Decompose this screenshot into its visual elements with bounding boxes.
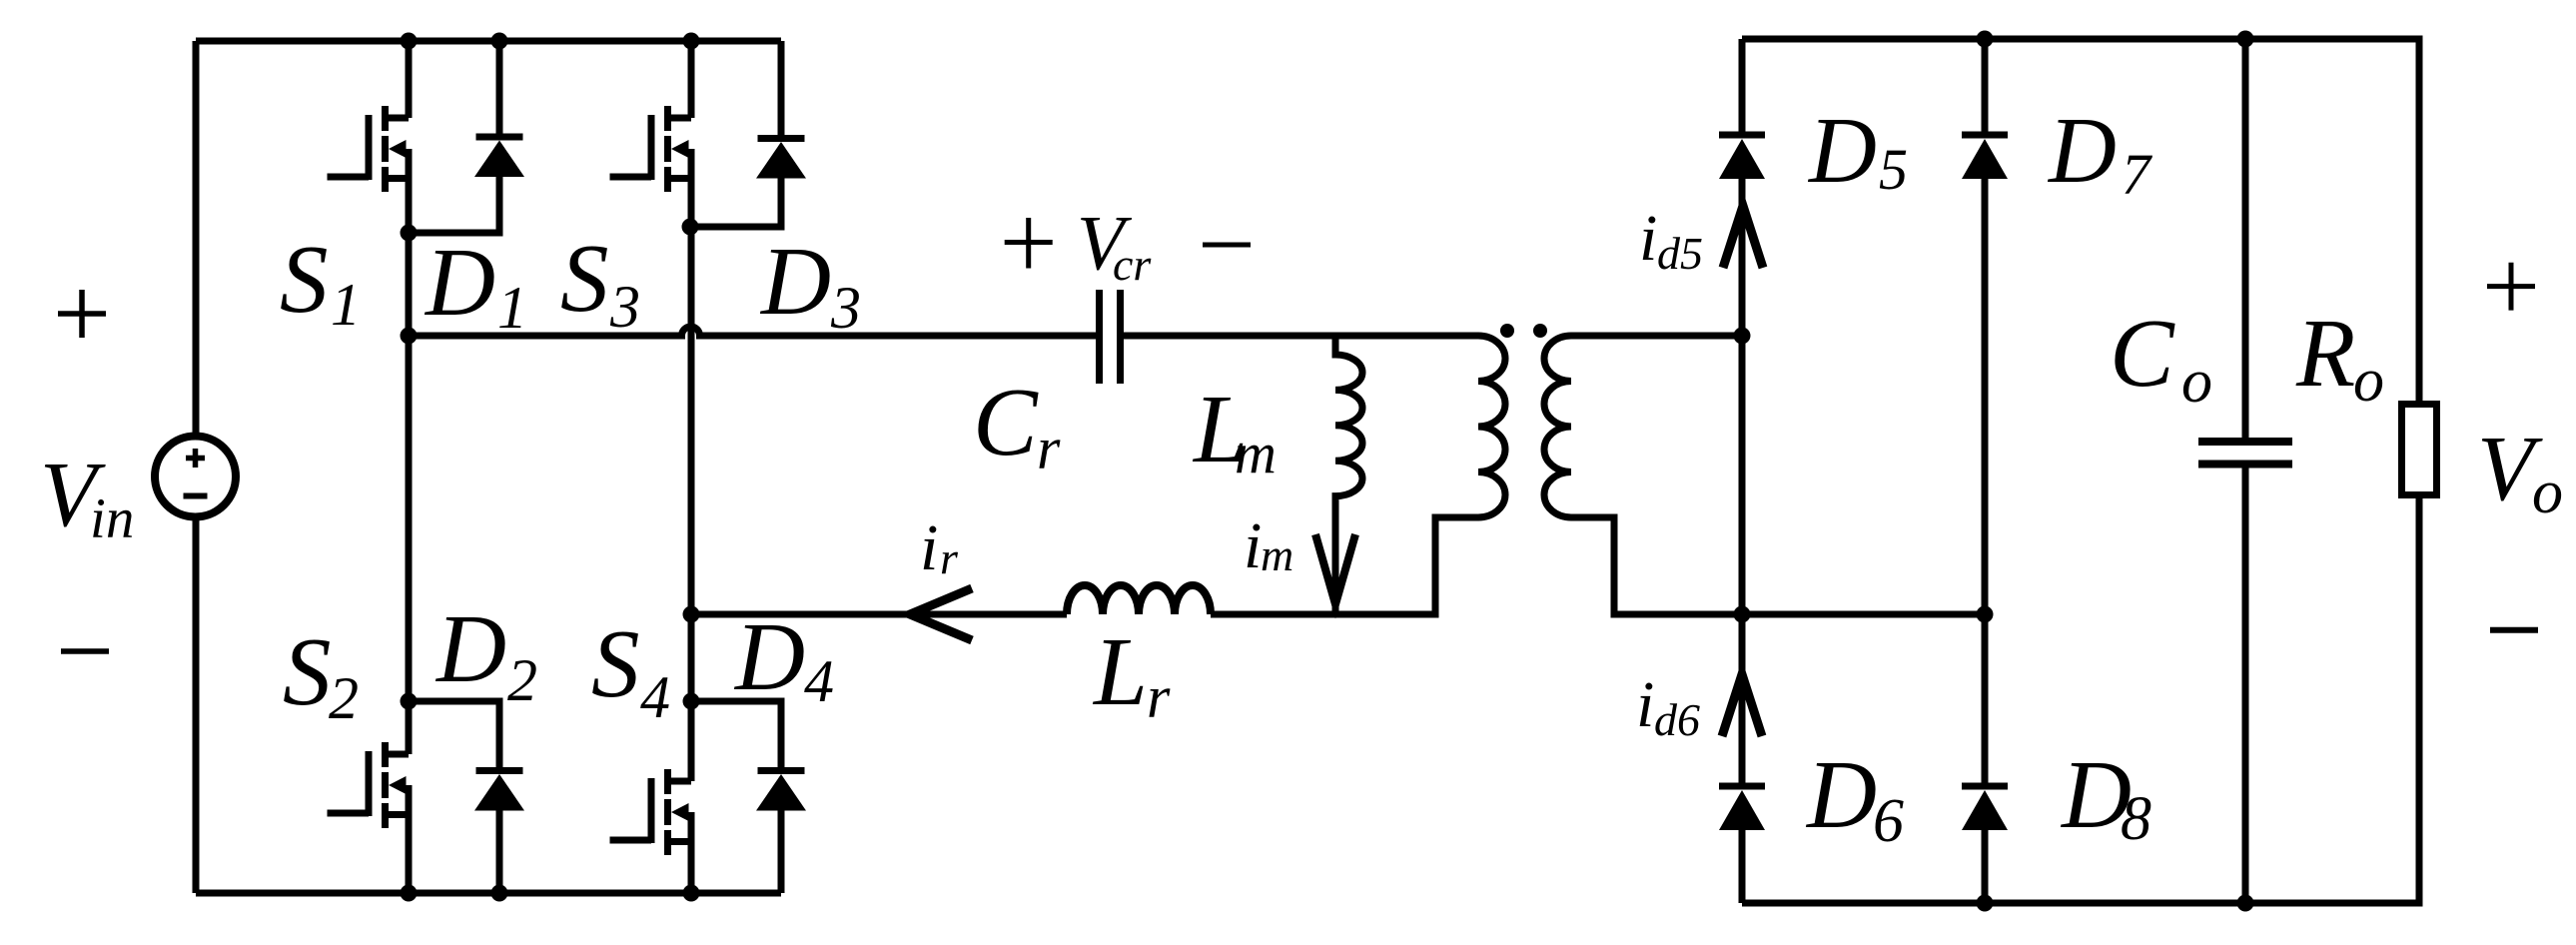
node: bottom rail / S4 source: [683, 885, 700, 902]
wire: D8 anode to bottom rail: [1982, 829, 1989, 903]
wire: D3 anode to S3 source node: [690, 177, 781, 227]
svg-text:D: D: [1807, 99, 1877, 203]
wire: return from S4 node through Lr: [691, 611, 1067, 618]
svg-text:2: 2: [329, 665, 359, 731]
svg-text:in: in: [90, 487, 134, 550]
wire: S4 drain node to D4 cathode: [691, 701, 781, 768]
wire: S1 drain lead: [406, 41, 413, 118]
wire: D5 cathode lead: [1739, 39, 1746, 132]
svg-text:S: S: [591, 610, 640, 717]
node: S2 drain / D2 cathode: [401, 693, 418, 710]
wire: Cr to transformer primary top: [1124, 333, 1478, 340]
diode D6: [1719, 786, 1765, 830]
wire: secondary top to rectifier node: [1571, 333, 1742, 340]
svg-text:i: i: [1636, 668, 1654, 741]
wire: secondary bottom to rectifier node: [1571, 517, 1985, 614]
arrow id6 current: [1722, 674, 1762, 736]
wire: right leg S3 source to S4 drain: [688, 178, 695, 781]
svg-text:r: r: [940, 532, 959, 583]
svg-text:3: 3: [609, 274, 640, 340]
svg-text:o: o: [2181, 348, 2212, 416]
wire: S3 drain lead: [688, 41, 695, 118]
wire: D6 anode to bottom rail: [1739, 829, 1746, 903]
capacitor Cr right plate: [1117, 290, 1124, 384]
wire: D1 anode to S1 source node: [409, 176, 499, 233]
node: S3 source / D3 anode: [682, 219, 699, 236]
svg-text:r: r: [1037, 416, 1061, 481]
svg-text:D: D: [424, 229, 495, 336]
wire: D1 cathode lead: [496, 41, 503, 135]
svg-text:m: m: [1261, 529, 1293, 580]
svg-text:i: i: [920, 511, 938, 584]
node: top rail / D1 cathode: [491, 33, 508, 50]
node: bottom rail / S2 source: [401, 885, 418, 902]
transformer primary polarity dot: [1500, 324, 1514, 338]
diode D5: [1719, 135, 1765, 179]
transistor S1: [328, 106, 410, 192]
wire: secondary bottom rail: [1742, 494, 2419, 903]
svg-text:o: o: [2353, 347, 2384, 415]
node: bottom rail / D8: [1977, 895, 1994, 912]
svg-text:D: D: [2047, 99, 2117, 203]
svg-text:d5: d5: [1657, 228, 1703, 279]
svg-text:S: S: [283, 618, 332, 725]
wire: S2 source to bottom rail: [406, 814, 413, 893]
transformer primary winding: [1478, 336, 1505, 517]
wire: left leg S1 source to S2 drain: [406, 178, 413, 754]
wire: D2 anode to bottom rail: [496, 809, 503, 893]
diode D7: [1962, 135, 2008, 179]
arrow im current: [1315, 534, 1355, 604]
wire: D3 cathode lead from top rail: [778, 41, 785, 135]
diode D4: [756, 771, 806, 811]
label: - of Vcr: [1203, 243, 1251, 248]
wire: Vin negative terminal down to bottom-left corner: [193, 516, 200, 893]
svg-text:o: o: [2532, 459, 2563, 526]
svg-text:C: C: [973, 369, 1039, 475]
resistor Ro: [2402, 405, 2437, 495]
svg-text:C: C: [2110, 300, 2175, 407]
node: secondary bottom / D7-D8 leg: [1977, 606, 1994, 623]
svg-text:3: 3: [830, 275, 861, 341]
svg-text:D: D: [759, 228, 831, 335]
voltage source Vin: [155, 437, 236, 517]
svg-text:6: 6: [1873, 787, 1904, 855]
svg-text:L: L: [1092, 618, 1148, 725]
wire: D7 cathode lead: [1982, 39, 1989, 132]
diode D1: [474, 137, 524, 177]
node: S1 source / D1 anode: [401, 225, 418, 242]
inductor Lm: [1335, 336, 1362, 614]
transformer secondary polarity dot: [1533, 324, 1547, 338]
node: secondary top / D5-D6 leg: [1734, 328, 1751, 345]
svg-text:8: 8: [2121, 785, 2151, 853]
svg-text:1: 1: [331, 272, 361, 338]
svg-text:4: 4: [640, 664, 670, 730]
label: + of Vo: [2487, 263, 2535, 311]
capacitor Co: [2198, 442, 2292, 465]
capacitor Cr left plate: [1096, 290, 1103, 384]
svg-text:r: r: [1147, 664, 1171, 730]
svg-text:1: 1: [497, 275, 527, 341]
wire: primary bottom rail: [196, 890, 781, 897]
wire: Lr to Lm bottom and primary winding bottom: [1211, 517, 1478, 614]
node: S4 drain / D4 cathode: [683, 693, 700, 710]
label: - of Vo: [2490, 627, 2538, 633]
node: secondary bottom / D5-D6 leg: [1734, 606, 1751, 623]
node: top rail / D7: [1977, 31, 1994, 48]
svg-text:4: 4: [804, 648, 834, 714]
label: + of Vin: [58, 290, 106, 338]
wire: bridge mid-point to resonant capacitor, hops over right leg: [409, 327, 1096, 336]
svg-text:R: R: [2295, 300, 2355, 407]
transistor S4: [610, 769, 692, 855]
wire: S4 source to bottom rail: [688, 841, 695, 893]
wire: Vin positive terminal up to top-left corner: [193, 41, 200, 437]
transformer secondary winding: [1544, 336, 1571, 517]
svg-text:S: S: [280, 226, 329, 333]
svg-text:D: D: [733, 603, 805, 710]
transistor S2: [328, 742, 410, 828]
node: top rail / S3 drain: [683, 33, 700, 50]
diode D8: [1962, 786, 2008, 830]
svg-text:S: S: [560, 225, 609, 332]
svg-text:D: D: [434, 595, 506, 702]
wire: primary top rail: [196, 38, 781, 45]
svg-text:i: i: [1244, 509, 1262, 582]
svg-text:m: m: [1235, 421, 1277, 485]
svg-text:5: 5: [1879, 137, 1908, 202]
node: left leg mid-point output: [401, 328, 418, 345]
svg-text:2: 2: [507, 647, 537, 713]
node: bottom rail / Co: [2237, 895, 2254, 912]
wire: Co top lead: [2242, 39, 2249, 438]
label: + of Vcr: [1005, 218, 1053, 269]
wire: secondary top rail: [1742, 39, 2419, 405]
svg-text:cr: cr: [1113, 239, 1152, 290]
wire: D5 anode down through D6 cathode: [1739, 178, 1746, 783]
svg-text:7: 7: [2122, 142, 2152, 207]
arrow ir current: [910, 588, 972, 640]
wire: D4 anode lead to bottom rail: [778, 810, 785, 893]
node: bottom rail / D2 anode: [491, 885, 508, 902]
node: right leg / Lr return: [683, 606, 700, 623]
diode D2: [474, 771, 524, 811]
inductor Lr: [1067, 585, 1211, 614]
svg-text:d6: d6: [1654, 694, 1700, 745]
wire: Co bottom lead: [2242, 469, 2249, 904]
svg-text:D: D: [1805, 741, 1877, 848]
diode D3: [756, 139, 806, 179]
node: top rail / Co: [2237, 31, 2254, 48]
arrow id5 current: [1723, 206, 1763, 268]
transistor S3: [610, 106, 692, 192]
wire: D7 anode down to D8: [1982, 178, 1989, 783]
label: - of Vin: [61, 648, 109, 654]
svg-text:i: i: [1639, 202, 1657, 275]
wire: S2 drain node to D2 cathode: [409, 701, 499, 768]
node: top rail / S1 drain: [401, 33, 418, 50]
